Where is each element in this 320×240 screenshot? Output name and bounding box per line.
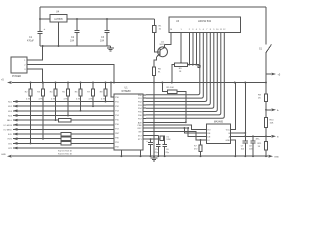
- junction R5 bus: [67, 115, 69, 117]
- junction R3 rail: [171, 82, 173, 84]
- wire bus INT1: [13, 138, 114, 140]
- wire bias vertical: [244, 83, 246, 141]
- junction R5 line: [185, 121, 187, 123]
- wire U3 data pin D5: [146, 33, 217, 112]
- ground main: [151, 156, 158, 161]
- node gnd rail left arrow: [7, 155, 12, 158]
- regulator U4 box: [50, 15, 67, 23]
- junction 485+ node: [265, 109, 267, 111]
- svg-text:12M: 12M: [166, 139, 170, 141]
- resistor R7: [91, 89, 94, 96]
- wire reg input: [40, 18, 50, 20]
- junction DE drop: [187, 127, 189, 129]
- wire C4 upper: [150, 139, 152, 142]
- capacitor C4: [148, 142, 153, 144]
- wire R1 top: [153, 19, 155, 25]
- svg-text:R5 10K: R5 10K: [167, 87, 175, 89]
- junction C7 rail: [244, 155, 246, 157]
- wire R5 upper: [67, 83, 69, 90]
- wire J1 pin1: [27, 46, 43, 60]
- junction B join: [244, 132, 246, 134]
- wire J1 pin3: [27, 69, 43, 83]
- wire U3 data pin D4: [146, 33, 214, 109]
- wire U3 data pin D2: [146, 33, 207, 102]
- wire chain seg3: [265, 128, 267, 142]
- svg-text:+: +: [44, 27, 46, 31]
- resistor R12: [59, 118, 71, 122]
- wire U3 gnd pin 3: [195, 33, 197, 65]
- junction R5 rail: [67, 82, 69, 84]
- svg-text:10K: 10K: [270, 123, 274, 125]
- capacitor C1: [37, 32, 42, 34]
- switch S1: [266, 45, 272, 53]
- wire U1 right pin stub 13: [143, 134, 146, 136]
- wire row9: [146, 121, 186, 123]
- wire C3 upper: [106, 19, 108, 31]
- wire U1 right pin stub 5: [143, 107, 146, 109]
- wire top +5V rail: [40, 6, 266, 8]
- wire U3 pin16 to Q1: [165, 33, 172, 45]
- wire J1 pin2: [27, 65, 114, 83]
- svg-text:VCC: VCC: [226, 129, 231, 131]
- wire C7 lower: [244, 143, 246, 156]
- resistor R5: [167, 90, 177, 94]
- wire bus KD3: [13, 110, 114, 112]
- wire U1 gnd pin left: [120, 150, 122, 156]
- junction pin3 rail: [42, 82, 44, 84]
- resistor R6: [152, 67, 155, 75]
- wire chain to rail: [265, 150, 267, 156]
- junction gnd tie 1: [188, 64, 190, 66]
- wire chain seg2: [265, 101, 267, 117]
- wire right rail down to switch: [265, 7, 267, 45]
- resistor R5: [66, 89, 69, 96]
- svg-text:W78E58: W78E58: [121, 90, 131, 93]
- resistor R3: [41, 89, 44, 96]
- resistor R15: [61, 142, 71, 146]
- wire R2 upper: [30, 83, 32, 90]
- wire bus BELL: [13, 119, 114, 121]
- junction A cap: [252, 135, 254, 137]
- wire +5 node down to VCC rail: [265, 74, 267, 83]
- svg-text:R14 1K R15 1K: R14 1K R15 1K: [58, 153, 73, 155]
- mcu U1 box: [114, 94, 143, 150]
- junction R8 rail: [105, 82, 107, 84]
- capacitor C3: [104, 31, 109, 33]
- wire R4 upper: [55, 83, 57, 90]
- svg-text:HRCW 502: HRCW 502: [198, 19, 212, 23]
- wire reg gnd pin: [58, 22, 60, 46]
- labels U2 pins: [208, 129, 231, 142]
- resistor R13: [61, 132, 71, 136]
- wire bus I/O MISO: [13, 128, 114, 130]
- resistor R3: [174, 63, 187, 66]
- wire U1 right pin stub 6: [143, 111, 146, 113]
- wire R5 right: [177, 92, 186, 123]
- svg-text:ALE: ALE: [138, 121, 142, 124]
- wire U1 to RO: [146, 125, 206, 129]
- wire bus BT1: [13, 142, 114, 144]
- junction R2 rail: [30, 82, 32, 84]
- wire C5 to rail: [157, 146, 159, 156]
- wire U3 data pin D7: [146, 33, 224, 119]
- wire R6 upper: [80, 83, 82, 90]
- resistor R2: [29, 89, 32, 96]
- wire XT1 line: [146, 138, 165, 140]
- svg-text:RO: RO: [208, 129, 211, 131]
- node 485+ arrow: [272, 108, 277, 111]
- wire 485+ stub: [266, 109, 271, 111]
- wire C4 lower: [150, 144, 152, 156]
- wire C6 to rail: [164, 146, 166, 156]
- junction R6 rail: [153, 82, 155, 84]
- wire R8 upper: [105, 83, 107, 90]
- junction reg gnd: [58, 45, 60, 47]
- ground lcd pins: [197, 65, 201, 68]
- junction chain top: [265, 82, 267, 84]
- wire 485- stub: [266, 135, 271, 137]
- wire U3 gnd pin 1: [188, 33, 190, 65]
- wire R3 lower: [42, 96, 44, 139]
- wire input vertical: [39, 7, 41, 32]
- junction input-reg: [39, 18, 41, 20]
- ground psu: [107, 46, 114, 51]
- wire B line: [231, 132, 246, 134]
- svg-text:GND: GND: [274, 156, 279, 158]
- wire R2 lower: [30, 96, 32, 143]
- resistor R9: [264, 94, 267, 102]
- junction R3 rail: [42, 82, 44, 84]
- wire U1 right pin stub 10: [143, 124, 146, 126]
- junction R2 bus: [30, 142, 32, 144]
- wire bus KD1: [13, 101, 114, 103]
- node INT1 arrow: [13, 137, 18, 140]
- wire U1 right pin stub 12: [143, 131, 146, 133]
- wire R4 lower: [55, 96, 57, 120]
- wire R3 upper: [42, 83, 44, 90]
- capacitor C7: [243, 141, 248, 143]
- svg-text:LM7805: LM7805: [54, 19, 63, 21]
- junction chain rail: [265, 155, 267, 157]
- node BT2 arrow: [13, 147, 18, 150]
- svg-text:GND: GND: [1, 154, 6, 156]
- node +5 flag arrow: [272, 73, 277, 76]
- wire VCC rail: [12, 82, 266, 84]
- wire bus KD4: [13, 114, 114, 116]
- capacitor C2: [74, 31, 79, 33]
- junction R5 rail: [161, 82, 163, 84]
- junction C8 rail: [252, 155, 254, 157]
- capacitor C8: [250, 141, 255, 143]
- wire U1 right pin stub 1: [143, 94, 146, 96]
- wire R7 upper: [92, 83, 94, 90]
- wire U1 right pin stub 3: [143, 101, 146, 103]
- wire C8 upper: [252, 136, 254, 141]
- svg-text:104: 104: [100, 40, 105, 43]
- junction RE drop: [183, 127, 185, 129]
- svg-text:MAX485: MAX485: [214, 121, 224, 124]
- svg-text:GND: GND: [226, 140, 231, 142]
- junction R6 bus: [80, 110, 82, 112]
- wire R3 left: [172, 65, 175, 83]
- wire C2 upper: [76, 19, 78, 31]
- junction C3 top: [106, 18, 108, 20]
- wire U1 right pin stub 4: [143, 104, 146, 106]
- wire U1 right pin stub 14: [143, 138, 146, 140]
- wire bus BT2: [13, 147, 114, 149]
- wire RE drop: [184, 128, 206, 133]
- wire U3 data pin D0: [146, 33, 200, 95]
- svg-text:I/O MISO: I/O MISO: [4, 129, 13, 131]
- wire xtal left leg: [157, 141, 159, 144]
- wire gnd tie line: [188, 64, 200, 66]
- labels U1 right pins: [138, 95, 143, 141]
- wire Q1 emitter to R6: [154, 57, 157, 67]
- junction R4 bus: [55, 119, 57, 121]
- junction gnd tie 2: [192, 64, 194, 66]
- junction GND rail: [234, 155, 236, 157]
- wire R5 lower: [67, 96, 69, 116]
- svg-text:485-: 485-: [256, 139, 260, 141]
- svg-text:104: 104: [70, 40, 75, 43]
- wire C8 lower: [252, 143, 254, 156]
- resistor R6: [79, 89, 82, 96]
- wire chain seg1: [265, 83, 267, 94]
- wire U1 to DI: [146, 132, 206, 140]
- svg-text:PSE: PSE: [138, 125, 143, 127]
- wire xtal right leg: [164, 141, 166, 144]
- svg-text:I/O MOSI: I/O MOSI: [4, 125, 13, 127]
- wire A line: [231, 135, 267, 137]
- resistor R10: [264, 118, 267, 128]
- wire GND pin: [231, 140, 236, 156]
- junction pin1 R3: [180, 62, 182, 64]
- node I/O MOSI arrow: [13, 123, 18, 126]
- wire vcc to U1 pin1: [111, 83, 114, 98]
- junction C6 rail: [164, 155, 166, 157]
- resistor R11: [264, 142, 267, 150]
- wire R6 to rail: [153, 75, 155, 156]
- node SCK arrow: [13, 133, 18, 136]
- junction R4 rail: [55, 82, 57, 84]
- wire U1 right pin stub 8: [143, 117, 146, 119]
- wire XT2 line: [146, 134, 158, 136]
- junction R6 rail: [80, 82, 82, 84]
- resistor R4: [54, 89, 57, 96]
- wire U1 right pin stub 11: [143, 127, 146, 129]
- wire R7 lower: [92, 96, 94, 106]
- wire Q1 collector: [164, 45, 166, 48]
- wire R8 lower: [105, 96, 107, 102]
- junction VCC rail: [234, 82, 236, 84]
- resistor R7: [199, 145, 202, 152]
- wire U1 right pin stub 2: [143, 97, 146, 99]
- junction pin2 rail: [113, 82, 115, 84]
- node KD3 arrow: [13, 109, 18, 112]
- wire U3 gnd pin 2: [192, 33, 194, 65]
- junction vcc pin wire: [110, 82, 112, 84]
- wire bottom gnd rail: [12, 155, 268, 157]
- node gnd rail right arrow: [269, 155, 274, 158]
- svg-text:470uF: 470uF: [27, 40, 34, 43]
- resistor R7 wire top: [200, 139, 202, 141]
- resistor R1: [153, 25, 156, 32]
- junction R7 bus: [92, 105, 94, 107]
- wire R7 lower: [200, 152, 202, 157]
- wire U3 pin1 down: [180, 33, 182, 63]
- wire switch to +5 node: [265, 53, 267, 75]
- junction U1 gnd right: [140, 155, 142, 157]
- capacitor C6: [162, 144, 167, 146]
- node VCC rail left arrow: [7, 81, 12, 84]
- wire C1 to gnd rail: [39, 34, 41, 47]
- svg-text:R12 1K R13 1K: R12 1K R13 1K: [58, 150, 73, 152]
- junction R7 rail: [200, 155, 202, 157]
- junction C2 top: [76, 18, 78, 20]
- labels U1 left pins: [115, 97, 120, 149]
- capacitor C5: [156, 144, 161, 146]
- wire U3 data pin D6: [146, 33, 221, 115]
- wire R8 bus stub: [106, 101, 114, 103]
- svg-text:SCK: SCK: [8, 134, 13, 136]
- wire gnd rail: [40, 45, 111, 47]
- node BT1 arrow: [13, 142, 18, 145]
- node KD1 arrow: [13, 100, 18, 103]
- labels U3 pin numbers: [170, 29, 226, 31]
- junction gnd J1: [42, 45, 44, 47]
- wire U1 to RE: [146, 127, 188, 129]
- wire R7 upper: [200, 140, 202, 145]
- crystal X1: [158, 135, 164, 141]
- node KD4 arrow: [13, 114, 18, 117]
- wire bus SCK: [13, 133, 114, 135]
- wire R6 lower: [80, 96, 82, 111]
- wire reg output rail: [67, 18, 154, 20]
- wire bus I/O MOSI: [13, 124, 114, 126]
- wire U1 right pin stub 7: [143, 114, 146, 116]
- wire bus KD2: [13, 105, 114, 107]
- wire U1 right pin stub 9: [143, 121, 146, 123]
- junction gnd tie 3: [195, 64, 197, 66]
- junction C4 rail: [150, 155, 152, 157]
- svg-text:POWER: POWER: [12, 75, 21, 78]
- junction C5 rail: [157, 155, 159, 157]
- wire +5 node stub: [266, 73, 271, 75]
- junction bias rail: [244, 82, 246, 84]
- transistor Q1: [157, 47, 168, 57]
- wire DE drop: [188, 128, 206, 136]
- node KD2 arrow: [13, 105, 18, 108]
- resistor R14: [61, 137, 71, 141]
- junction C4 line: [150, 138, 152, 140]
- node 485- arrow: [272, 135, 277, 138]
- junction R7 rail: [92, 82, 94, 84]
- node BELL arrow: [13, 119, 18, 122]
- wire VCC pin to rail: [231, 83, 236, 130]
- resistor R8: [104, 89, 107, 96]
- wire C3 lower: [106, 33, 108, 47]
- junction 485- node: [265, 135, 267, 137]
- node I/O MISO arrow: [13, 128, 18, 131]
- junction U1 gnd left: [120, 155, 122, 157]
- display U3 box: [169, 17, 241, 33]
- wire U3 data pin D1: [146, 33, 203, 99]
- max485 U2 box: [206, 124, 230, 144]
- wire C2 lower: [76, 33, 78, 47]
- junction R3 bus: [42, 138, 44, 140]
- wire U3 data pin D3: [146, 33, 210, 105]
- wire R1 to base: [154, 33, 160, 52]
- junction R8 bus: [105, 101, 107, 103]
- wire R5 left: [162, 83, 167, 92]
- wire U1 gnd pin right: [140, 150, 142, 156]
- connector J1 box: [11, 57, 27, 73]
